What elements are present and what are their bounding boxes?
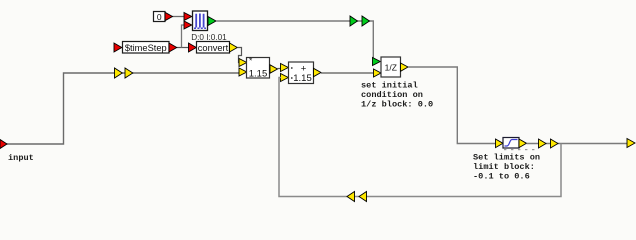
- wire sum to 1/Z second input: [321, 72, 374, 74]
- dashes under limit block: [504, 149, 534, 150]
- sum block + 1.15: [281, 62, 322, 84]
- wire sampleHold out to 1/Z first input (top run): [216, 21, 373, 59]
- wire 1/Z out down to limit row: [408, 67, 496, 144]
- svg-text:condition on: condition on: [361, 90, 423, 100]
- svg-text:$timeStep: $timeStep: [125, 43, 167, 53]
- svg-text:set initial: set initial: [361, 81, 418, 91]
- svg-text:convert: convert: [198, 43, 229, 53]
- svg-text:1.15: 1.15: [249, 69, 268, 80]
- unit delay 1/Z block: [373, 57, 409, 77]
- wire 0 const to sampleHold: [171, 16, 185, 18]
- wire multiply to sum: [278, 68, 282, 70]
- svg-text:-0.1 to 0.6: -0.1 to 0.6: [473, 172, 530, 182]
- svg-text:input: input: [8, 153, 34, 163]
- svg-text:limit block:: limit block:: [473, 162, 535, 172]
- svg-text:1/Z: 1/Z: [385, 63, 397, 73]
- svg-text:Set limits on: Set limits on: [473, 153, 540, 163]
- svg-text:0: 0: [157, 12, 162, 22]
- const 0 block: [154, 12, 173, 22]
- output arrow (yellow, right edge): [627, 139, 635, 148]
- input arrow (red, left edge): [0, 140, 7, 149]
- wire $timeStep to convert with branch up to sampleHold pin2: [177, 47, 189, 49]
- multiply block * 1.15: [239, 56, 278, 80]
- sampleHold block U1 (pulse train icon): [184, 11, 216, 31]
- wire convert to multiply (elbow): [237, 48, 241, 63]
- limit block (sigmoid icon): [496, 138, 527, 149]
- node feedback arrows (yellow pair, pointing left): [347, 192, 355, 202]
- node pass-through arrows after limit (yellow pair): [539, 139, 547, 148]
- node pass-through arrows on top run (green pair): [350, 16, 358, 26]
- wire feedback loop: [279, 78, 561, 197]
- wire limit out to right edge: [527, 143, 628, 145]
- svg-text:1.15: 1.15: [293, 73, 312, 84]
- convert block: [189, 42, 238, 54]
- svg-text:D:0 I:0.01: D:0 I:0.01: [191, 33, 227, 42]
- wire input run: left edge up to main row: [7, 73, 241, 144]
- node pass-through arrows on main row (yellow pair): [115, 68, 123, 78]
- svg-text:1/z block: 0.0: 1/z block: 0.0: [361, 100, 433, 110]
- variable $timeStep: [114, 42, 177, 54]
